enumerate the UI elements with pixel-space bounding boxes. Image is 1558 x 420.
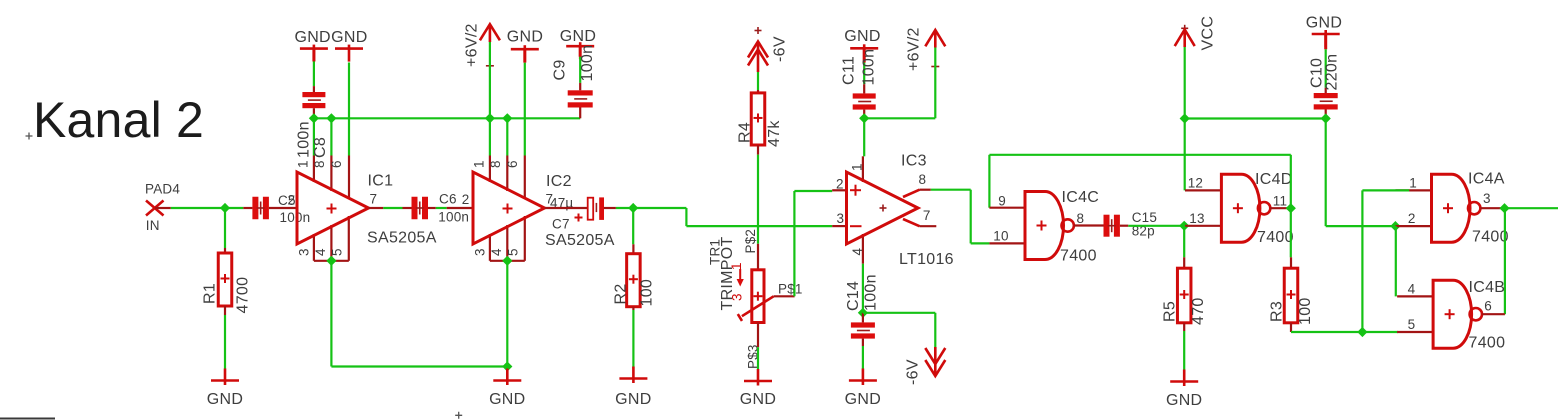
wire junction to IC3 pin3 (633, 207, 686, 209)
svg-text:IN: IN (146, 218, 160, 233)
svg-text:2: 2 (288, 193, 296, 208)
origin cross VCC (1181, 27, 1188, 29)
svg-text:LT1016: LT1016 (899, 251, 954, 268)
svg-text:IC4B: IC4B (1469, 279, 1506, 296)
wire pin6 IC1 from GND (348, 63, 350, 156)
pin5 IC2 (524, 216, 526, 261)
wire R5 to GND (1183, 323, 1185, 331)
pin12 stub IC4D (1185, 189, 1221, 191)
pin5 IC1 (348, 216, 350, 261)
svg-text:7: 7 (370, 191, 378, 206)
resistor R5 (1177, 268, 1191, 323)
node junction IC2 pin8 rail (502, 113, 512, 123)
resistor R2 (627, 254, 641, 307)
bottom bar IC2 pins 3-4-5 (490, 260, 525, 262)
wire C7 to junction (616, 207, 633, 209)
wire C11 junction to IC3 pin1 (863, 118, 865, 156)
svg-text:C7: C7 (552, 217, 570, 232)
node junction IN/R1 (220, 203, 230, 213)
svg-text:GND: GND (615, 391, 651, 408)
node junction pin8 rail (326, 113, 336, 123)
wire junction to -6V (863, 312, 935, 314)
svg-text:PAD4: PAD4 (145, 181, 180, 196)
svg-text:7400: 7400 (1257, 229, 1294, 246)
svg-text:IC3: IC3 (901, 153, 927, 170)
svg-text:GND: GND (560, 28, 596, 45)
node junction C14 (858, 308, 868, 318)
wire pin1 IC1 from rail (313, 118, 315, 155)
wire feedback horizontal (989, 154, 1290, 156)
svg-text:C9: C9 (552, 59, 569, 80)
svg-text:470: 470 (1190, 297, 1207, 325)
op-amp IC1 SA5205A (297, 172, 369, 244)
wire feedback up (1290, 155, 1292, 208)
svg-text:3: 3 (473, 248, 488, 256)
svg-text:GND: GND (507, 29, 543, 46)
wire IC3 pin8 to IC4C pin10 (931, 189, 971, 191)
ground TR1 (757, 369, 760, 386)
node junction R3/pin5 (1357, 327, 1367, 337)
polarity plus C7 (575, 217, 583, 219)
svg-text:100: 100 (1297, 297, 1314, 325)
wire C6 to IC2 (436, 207, 447, 209)
sheet origin cross 2 (455, 412, 462, 419)
wire pin8 IC2 from rail (506, 118, 508, 155)
svg-text:VCC: VCC (1200, 16, 1217, 51)
svg-text:1: 1 (296, 160, 311, 168)
node junction C7/R2 (628, 203, 638, 213)
svg-text:C14: C14 (845, 281, 862, 311)
pin8 out IC4C (1074, 224, 1104, 226)
svg-text:P$2: P$2 (743, 229, 758, 254)
svg-text:100n: 100n (296, 121, 313, 158)
wire output right (1505, 207, 1558, 209)
svg-text:1: 1 (472, 160, 487, 168)
svg-text:13: 13 (1189, 211, 1204, 226)
wire R1 to GND (224, 306, 226, 315)
wire R2 to GND (632, 307, 634, 310)
node junction VCC rail (1180, 113, 1190, 123)
wire IC1 bottom to GND rail (330, 261, 332, 367)
svg-text:7400: 7400 (1472, 229, 1509, 246)
svg-text:11: 11 (1273, 193, 1287, 208)
capacitor C11 100n (863, 48, 866, 62)
wire pin8 IC1 from rail (330, 118, 332, 155)
wire gnd stub IC2 pin6 (523, 49, 526, 62)
svg-text:GND: GND (1166, 392, 1202, 409)
svg-text:2: 2 (836, 177, 844, 192)
capacitor C6 100n (403, 207, 412, 209)
pin3 IC2 (489, 234, 491, 261)
svg-text:2: 2 (1408, 211, 1416, 226)
wire C10 junction down (1325, 119, 1327, 227)
svg-text:Kanal 2: Kanal 2 (33, 92, 204, 148)
pin11 out IC4D (1270, 207, 1290, 209)
svg-text:7400: 7400 (1469, 335, 1506, 352)
wire C15 to junction (1128, 225, 1184, 227)
origin cross +6V/2 2 (931, 66, 939, 68)
node junction IC4D out (1286, 203, 1296, 213)
svg-text:100n: 100n (579, 45, 596, 82)
sheet origin cross (26, 133, 33, 140)
pin4 IC2 (506, 225, 508, 261)
svg-text:5: 5 (330, 248, 345, 256)
wire +6V2 down (934, 48, 936, 119)
svg-text:3: 3 (837, 211, 845, 226)
wire TR1 to GND (757, 323, 759, 348)
resistor R3 (1284, 268, 1298, 323)
resistor R4 (751, 93, 765, 145)
svg-text:-6V: -6V (772, 36, 789, 62)
wire IC2 out to C7 (545, 207, 588, 209)
wire VCC down (1184, 47, 1186, 190)
svg-text:6: 6 (1484, 299, 1492, 314)
pin4 stub IC3 (862, 234, 864, 264)
svg-text:100n: 100n (438, 210, 469, 225)
svg-text:GND: GND (844, 28, 880, 45)
svg-text:1: 1 (1409, 175, 1417, 190)
supply VCC arrow (1175, 30, 1195, 47)
svg-text:IC4C: IC4C (1062, 189, 1100, 206)
origin cross -6V top (755, 30, 762, 32)
svg-text:100: 100 (639, 279, 656, 307)
pin10 stub IC4C (989, 242, 1025, 244)
pin3 stub IC3 (832, 225, 846, 227)
trimpot pin arrow down (739, 269, 741, 280)
svg-text:4: 4 (1408, 281, 1416, 296)
svg-text:R3: R3 (1269, 301, 1286, 322)
supply +6V/2 arrow 2 (925, 30, 945, 46)
comparator IC3 LT1016 (847, 172, 919, 244)
wire pin6 IC2 from GND (524, 63, 526, 156)
node junction IC4A pin2 (1390, 221, 1400, 231)
wire IC3 pin4 to junction (862, 264, 864, 313)
wire pin1 net vertical (1361, 190, 1363, 332)
svg-text:GND: GND (489, 391, 525, 408)
trimpot TR1 body (752, 270, 764, 323)
svg-text:R4: R4 (737, 122, 754, 143)
node junction C11 (859, 113, 869, 123)
nand gate IC4C 7400 (1025, 192, 1064, 260)
wire junction to pin5 (1362, 331, 1397, 333)
pin4 IC1 (330, 225, 332, 261)
wire junction to R1 (224, 208, 226, 248)
nand gate IC4A 7400 (1432, 174, 1471, 242)
node junction IC1 bottom (326, 256, 336, 266)
nand gate IC4D 7400 (1221, 174, 1260, 242)
capacitor C15 82p (1104, 215, 1110, 237)
svg-text:5: 5 (506, 248, 521, 256)
wire pin2 to pin4 vertical (1395, 226, 1397, 296)
wire junction to R3 (1290, 208, 1292, 257)
wire -6V to R4 (757, 72, 759, 90)
origin cross +6V/2 (486, 65, 494, 67)
svg-text:8: 8 (488, 160, 503, 168)
svg-text:100n: 100n (861, 49, 878, 86)
pin2 stub IC4A (1396, 225, 1432, 227)
svg-text:GND: GND (740, 391, 776, 408)
svg-text:4: 4 (489, 248, 504, 256)
pin3 out IC4A (1480, 207, 1504, 209)
wire to pin1 IC4A (1362, 189, 1409, 191)
capacitor C10 220n (1324, 34, 1327, 49)
svg-text:TRIMPOT: TRIMPOT (719, 236, 736, 310)
wire pin1 IC2 from rail (489, 118, 491, 155)
svg-text:+6V/2: +6V/2 (464, 23, 481, 67)
wire IC2 bottom to GND (506, 261, 508, 369)
supply -6V arrow up (748, 42, 768, 58)
op-amp IC2 SA5205A (473, 172, 545, 244)
frame edge bottom-left (0, 418, 55, 420)
svg-text:6: 6 (329, 160, 344, 168)
svg-text:4700: 4700 (235, 277, 252, 314)
svg-text:GND: GND (207, 391, 243, 408)
svg-text:SA5205A: SA5205A (545, 232, 615, 249)
svg-text:3: 3 (1483, 191, 1491, 206)
svg-text:8: 8 (1077, 211, 1085, 226)
svg-text:C8: C8 (312, 137, 329, 158)
wire R4 to TR1 (757, 145, 759, 155)
svg-text:10: 10 (993, 228, 1008, 243)
pin8 stub IC3 (920, 189, 931, 191)
capacitor C5 100n (243, 207, 252, 209)
pin5 stub IC4B (1397, 331, 1433, 333)
bottom bar IC1 pins 3-4-5 (314, 260, 349, 262)
nand gate IC4B 7400 (1433, 280, 1472, 348)
wire VCC rail (1185, 117, 1326, 119)
svg-text:IC2: IC2 (546, 173, 572, 190)
svg-text:8: 8 (919, 172, 927, 187)
svg-text:100n: 100n (280, 210, 311, 225)
svg-text:7400: 7400 (1060, 248, 1097, 265)
pin3 IC1 (313, 234, 315, 261)
svg-text:R2: R2 (613, 283, 630, 304)
wire supply rail +6V/2 (314, 117, 580, 119)
svg-text:9: 9 (998, 193, 1006, 208)
ground C14 (862, 369, 865, 386)
svg-text:7: 7 (923, 208, 931, 223)
pin4 stub IC4B (1397, 295, 1433, 297)
pin6 out IC4B (1482, 313, 1505, 315)
svg-text:-6V: -6V (905, 359, 922, 385)
svg-text:C11: C11 (841, 56, 858, 85)
wire C11 junction to +6V2 (864, 117, 935, 119)
svg-text:5: 5 (1408, 317, 1416, 332)
svg-text:6: 6 (505, 160, 520, 168)
svg-text:100n: 100n (863, 274, 880, 311)
supply +6V/2 arrow (480, 24, 500, 40)
wire wiper to IC3 pin2 (793, 191, 795, 296)
wire output to IC4B pin6 (1504, 208, 1506, 314)
wire IC1 out (369, 207, 384, 209)
node junction +6V2 rail (485, 113, 495, 123)
svg-text:SA5205A: SA5205A (367, 230, 437, 247)
svg-text:+6V/2: +6V/2 (906, 27, 923, 71)
svg-text:P$1: P$1 (778, 282, 803, 297)
resistor R1 (218, 253, 232, 306)
svg-text:IC4D: IC4D (1255, 171, 1293, 188)
svg-text:4: 4 (313, 248, 328, 256)
ground R5 (1183, 370, 1186, 387)
pad PAD4 X symbol (146, 201, 164, 216)
svg-text:220n: 220n (1324, 54, 1341, 91)
ground R2 (632, 367, 635, 384)
svg-text:GND: GND (845, 391, 881, 408)
wire C14 to GND (862, 346, 864, 369)
node junction output (1499, 203, 1509, 213)
pin2 stub IC3 (832, 189, 846, 191)
svg-text:4: 4 (850, 248, 865, 256)
wire junction to R2 (632, 208, 634, 244)
wire +6V/2 down (489, 42, 491, 118)
pin9 stub IC4C (989, 207, 1025, 209)
wire R3 bottom (1290, 323, 1292, 332)
svg-text:R5: R5 (1162, 301, 1179, 322)
svg-text:12: 12 (1188, 176, 1203, 191)
capacitor C9 100n (579, 46, 582, 57)
trimpot wiper arrow (742, 296, 774, 316)
node junction C8 rail (309, 113, 319, 123)
svg-text:GND: GND (1306, 15, 1342, 32)
node junction C10 (1321, 113, 1331, 123)
pin13 stub IC4D (1185, 225, 1221, 227)
supply -6V arrow down (934, 347, 937, 374)
pin7 stub IC3 (920, 225, 937, 227)
pin1 stub IC4A (1396, 189, 1432, 191)
node junction C15/R5/pin13 (1179, 221, 1189, 231)
node junction IC2 bottom (502, 256, 512, 266)
svg-text:1: 1 (850, 163, 865, 171)
capacitor C8 100n (312, 49, 315, 62)
svg-text:IC1: IC1 (368, 173, 394, 190)
svg-text:R1: R1 (202, 283, 219, 304)
svg-text:GND: GND (294, 29, 330, 46)
pin1 stub IC3 (862, 156, 864, 182)
svg-text:GND: GND (331, 29, 367, 46)
svg-text:47k: 47k (766, 120, 783, 147)
node junction GND rail bottom (502, 361, 512, 371)
wire junction to R5 (1183, 226, 1185, 257)
svg-text:C6: C6 (439, 191, 457, 206)
svg-text:8: 8 (312, 160, 327, 168)
wire IN to junction (155, 207, 171, 209)
svg-text:2: 2 (462, 192, 470, 207)
ground IC1 IC2 bottom (506, 369, 509, 386)
capacitor C14 100n (862, 313, 864, 323)
wire feedback to IC4C pin9 (988, 155, 990, 208)
svg-text:3: 3 (297, 248, 312, 256)
svg-text:IC4A: IC4A (1468, 171, 1505, 188)
ground R1 (224, 369, 227, 386)
capacitor C7 47u (588, 198, 594, 220)
